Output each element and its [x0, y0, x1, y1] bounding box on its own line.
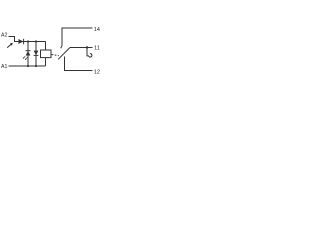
svg-text:A1: A1: [1, 64, 7, 70]
svg-text:12: 12: [94, 70, 100, 76]
svg-text:11: 11: [94, 46, 100, 52]
svg-text:A2: A2: [1, 33, 7, 39]
svg-text:14: 14: [94, 27, 100, 33]
